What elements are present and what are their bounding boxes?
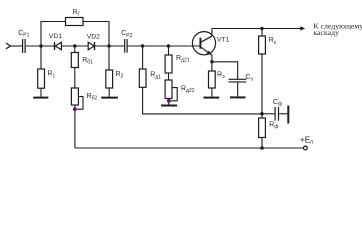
resistor Rb1: [74, 46, 76, 53]
wire: [95, 45, 125, 47]
svg-text:+Eп: +Eп: [300, 134, 313, 145]
ground: [101, 97, 118, 99]
svg-text:Cэ: Cэ: [245, 74, 253, 83]
node G: [260, 112, 264, 116]
node D: [141, 44, 144, 47]
node H: [260, 146, 264, 150]
input terminal arrow: [6, 43, 11, 49]
svg-text:CP1: CP1: [18, 30, 29, 39]
diode VD1: [54, 42, 56, 50]
transistor VT1: [192, 32, 215, 55]
svg-text:Cф: Cф: [273, 99, 282, 108]
svg-text:Rк: Rк: [269, 37, 277, 46]
svg-text:R2: R2: [116, 71, 124, 80]
wire: [261, 138, 263, 149]
output arrow: [300, 26, 305, 30]
node F: [260, 27, 263, 30]
capacitor Cph: [262, 113, 275, 115]
supply rail wire: [75, 147, 304, 149]
terminal +Ep: [304, 146, 308, 150]
wiper tap Rb2: [77, 97, 83, 110]
svg-text:Rд21: Rд21: [176, 55, 190, 64]
collector wire: [211, 29, 213, 37]
resistor Rd1: [142, 46, 144, 69]
wire: [61, 45, 88, 47]
resistor Rk: [261, 29, 263, 37]
capacitor CP1: [22, 39, 24, 53]
wire: [143, 87, 262, 114]
node B: [73, 44, 76, 47]
capacitor CP2: [124, 39, 126, 53]
svg-text:Rф: Rф: [269, 122, 278, 131]
ground: [33, 97, 48, 99]
junction (purple): [167, 99, 171, 103]
resistor R1: [40, 46, 42, 69]
svg-text:Rб2: Rб2: [87, 93, 98, 102]
emitter wire: [211, 55, 213, 62]
svg-text:CP2: CP2: [121, 30, 132, 39]
node A: [39, 44, 42, 47]
resistor Rph: [259, 118, 266, 138]
wire: [168, 99, 170, 105]
resistor Re: [211, 62, 213, 71]
wire: [26, 45, 54, 47]
junction (purple): [73, 107, 77, 111]
svg-text:Rб1: Rб1: [82, 57, 93, 66]
wire: [10, 45, 23, 47]
svg-text:Rэ: Rэ: [217, 71, 225, 80]
feedback resistor Rf: [41, 22, 109, 47]
ground: [204, 97, 220, 99]
ground: [161, 105, 177, 107]
resistor R2: [108, 46, 110, 70]
svg-text:каскаду: каскаду: [313, 28, 339, 37]
svg-text:Rд22: Rд22: [181, 85, 195, 94]
diode VD2: [88, 42, 94, 50]
svg-text:Rf: Rf: [73, 9, 80, 18]
ground: [230, 96, 246, 98]
wire: [74, 68, 76, 89]
wire: [128, 45, 201, 47]
node emitter: [210, 60, 213, 63]
resistor Rb2: [71, 88, 78, 105]
collector rail wire: [212, 28, 302, 30]
resistor Rd22: [165, 80, 172, 99]
node C: [107, 44, 110, 47]
svg-text:VD1: VD1: [49, 33, 62, 40]
capacitor Ce: [212, 62, 238, 79]
node E: [167, 44, 170, 47]
svg-text:Rд1: Rд1: [150, 72, 161, 81]
ground: [287, 106, 289, 124]
wire: [74, 105, 76, 148]
resistor Rd21: [168, 46, 170, 55]
wire: [168, 73, 170, 80]
wire: [261, 54, 263, 118]
svg-text:VD2: VD2: [87, 33, 100, 40]
wiper tap Rd22: [171, 88, 178, 101]
svg-text:VT1: VT1: [217, 36, 230, 43]
svg-text:R1: R1: [47, 71, 55, 80]
